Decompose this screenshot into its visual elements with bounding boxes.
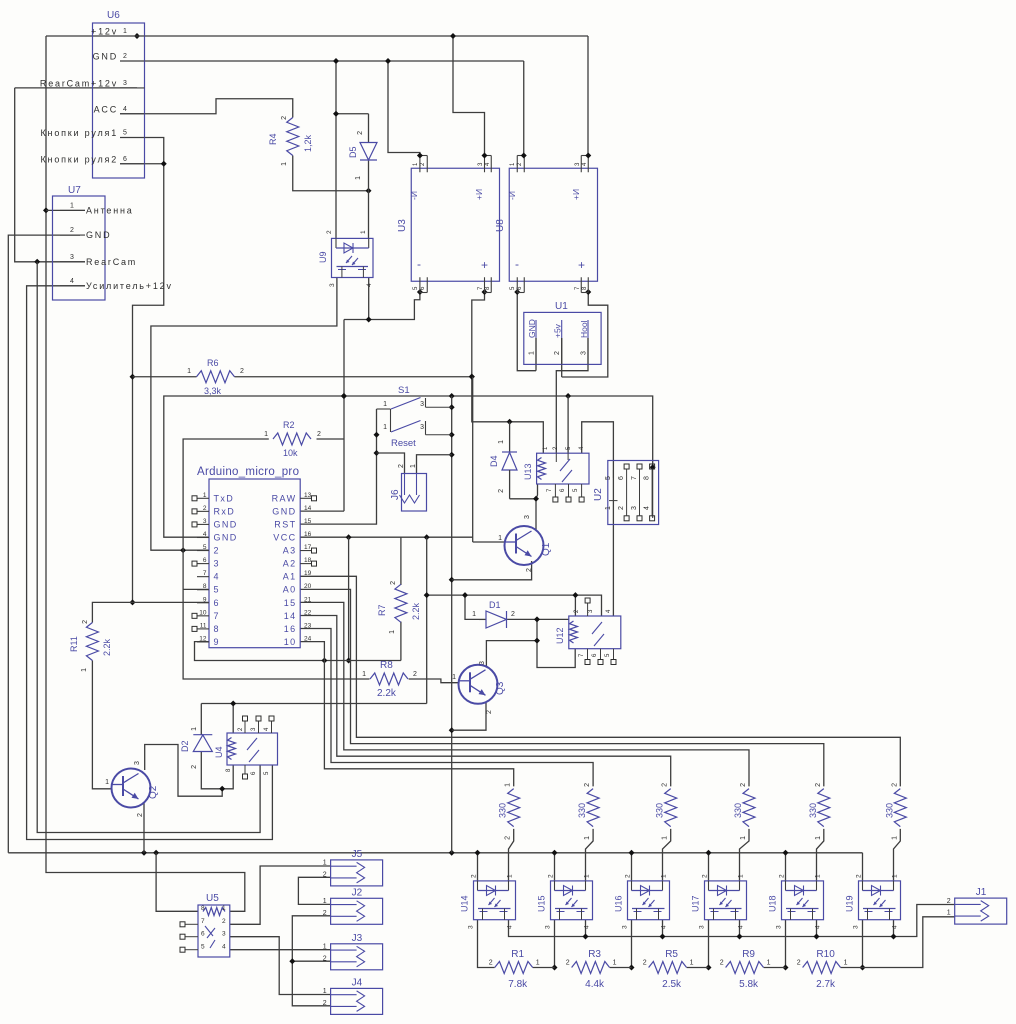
svg-text:R8: R8: [380, 660, 393, 671]
wire U5 pin2 to J5 pin1: [230, 866, 331, 924]
svg-text:-И: -И: [507, 191, 517, 200]
wire R8 pin2 to Q3 base: [409, 679, 460, 683]
wire ACC U6 pin4 to R4: [120, 99, 293, 118]
svg-text:7: 7: [201, 918, 205, 925]
svg-text:9: 9: [203, 596, 207, 603]
svg-text:3: 3: [214, 559, 220, 569]
wire R-row pin3 chain: [478, 920, 866, 971]
optocoupler U19: [845, 874, 901, 929]
svg-text:330: 330: [655, 803, 665, 818]
connector J5: [323, 849, 383, 886]
svg-text:Кнопки руля2: Кнопки руля2: [41, 154, 119, 164]
wire RearCam+12v U6 pin3 to U7 pin3: [15, 88, 137, 265]
wire J6 pin2 branch: [377, 453, 405, 474]
wire U7 pin3 tap bus3 down to U4: [37, 262, 260, 833]
svg-text:19: 19: [304, 570, 312, 577]
wire Arduino pin20 A0 to 330 resistor column: [300, 589, 824, 786]
svg-text:8: 8: [214, 624, 220, 634]
svg-text:1: 1: [613, 960, 617, 967]
svg-text:1: 1: [738, 874, 745, 878]
svg-text:8: 8: [644, 476, 651, 480]
svg-text:2: 2: [413, 671, 417, 678]
wire S1 left bracket down to RST pin15: [300, 409, 379, 524]
svg-text:Q3: Q3: [495, 681, 506, 695]
svg-text:1: 1: [584, 836, 591, 840]
svg-text:330: 330: [577, 803, 587, 818]
svg-text:12: 12: [199, 635, 207, 642]
wire Q3 emitter to bus: [452, 703, 486, 731]
svg-text:2: 2: [526, 568, 533, 572]
svg-text:3: 3: [479, 661, 486, 665]
svg-text:D1: D1: [489, 600, 501, 610]
svg-text:2: 2: [548, 874, 555, 878]
svg-text:4: 4: [738, 925, 745, 929]
resistor R10 2.7k: [797, 949, 848, 990]
wire J6 pin1 branch: [417, 455, 452, 474]
wire rail396 tap to U13 pin5: [567, 396, 569, 453]
wire D2 anode to y703 line: [201, 701, 426, 735]
svg-text:15: 15: [284, 598, 297, 608]
svg-text:3: 3: [203, 518, 207, 525]
optocoupler U16: [614, 874, 670, 929]
diode D2: [180, 727, 212, 769]
svg-text:+: +: [481, 258, 488, 272]
svg-text:3: 3: [468, 925, 475, 929]
svg-text:6: 6: [123, 156, 127, 163]
wire D2 U4 Q2 collector net: [145, 745, 234, 797]
svg-text:1: 1: [536, 960, 540, 967]
connector J2: [323, 887, 383, 924]
optocoupler U17: [691, 874, 747, 929]
svg-text:1: 1: [891, 836, 898, 840]
svg-text:R2: R2: [283, 420, 295, 430]
svg-text:U5: U5: [206, 893, 219, 904]
relay U13: [523, 446, 589, 502]
wire opto U15 pin2 to rail: [552, 850, 558, 881]
connector J1: [947, 887, 1007, 924]
resistor R9 5.8k: [720, 949, 771, 990]
svg-text:A2: A2: [283, 559, 297, 569]
svg-text:2: 2: [740, 783, 747, 787]
svg-text:330: 330: [498, 803, 508, 818]
svg-text:3: 3: [581, 351, 588, 355]
optocoupler U15: [537, 874, 593, 929]
svg-text:2: 2: [222, 918, 226, 925]
svg-text:2: 2: [326, 230, 333, 234]
wire 330 column 2 to opto U15 pin1: [586, 829, 594, 881]
svg-text:4: 4: [214, 572, 220, 582]
svg-text:U14: U14: [460, 895, 470, 912]
svg-text:3,3k: 3,3k: [204, 386, 222, 396]
svg-text:GND: GND: [214, 519, 238, 529]
svg-text:1: 1: [191, 727, 198, 731]
svg-text:2: 2: [214, 546, 220, 556]
resistor R4 1.2k: [268, 116, 313, 166]
svg-text:R5: R5: [665, 949, 678, 960]
svg-text:R9: R9: [742, 949, 755, 960]
svg-text:+12v: +12v: [91, 27, 118, 37]
connector J3: [323, 933, 383, 970]
svg-text:330: 330: [884, 803, 894, 818]
svg-text:R6: R6: [207, 358, 219, 368]
svg-text:U18: U18: [768, 895, 778, 912]
svg-text:R1: R1: [511, 949, 524, 960]
wire VCC pin16 line: [300, 377, 504, 542]
svg-text:2.2k: 2.2k: [377, 688, 397, 699]
wire U5 pin4 to J3 pin1: [230, 949, 331, 951]
wire 330 column 1 to opto U14 pin1: [509, 829, 514, 881]
svg-text:6: 6: [214, 598, 220, 608]
wire D1 cathode to U12 coil bottom and Q3 collector: [486, 616, 575, 667]
svg-text:U3: U3: [397, 219, 408, 232]
svg-text:10: 10: [199, 609, 207, 616]
svg-text:3: 3: [776, 925, 783, 929]
svg-text:RxD: RxD: [214, 506, 236, 516]
svg-text:1: 1: [264, 431, 268, 438]
svg-text:2: 2: [947, 898, 951, 905]
svg-text:1: 1: [584, 874, 591, 878]
svg-text:1: 1: [690, 960, 694, 967]
resistor R8 2.2k: [362, 660, 417, 699]
svg-text:5: 5: [203, 544, 207, 551]
wire opto U19 pin2 stub: [862, 853, 864, 881]
svg-text:U8: U8: [495, 219, 506, 232]
svg-text:R4: R4: [268, 133, 278, 145]
svg-text:1: 1: [661, 874, 668, 878]
svg-text:2: 2: [323, 910, 327, 917]
svg-text:GND: GND: [272, 506, 296, 516]
svg-text:2: 2: [856, 874, 863, 878]
wire +12v net from U6 pin1: [43, 33, 588, 911]
svg-text:4: 4: [222, 944, 226, 951]
svg-text:1: 1: [123, 28, 127, 35]
svg-text:RearCam+12v: RearCam+12v: [40, 78, 118, 88]
svg-text:6: 6: [203, 557, 207, 564]
svg-text:2: 2: [191, 765, 198, 769]
svg-text:2: 2: [891, 783, 898, 787]
svg-text:3: 3: [420, 424, 424, 431]
svg-text:4: 4: [892, 925, 899, 929]
svg-text:5: 5: [605, 476, 612, 480]
svg-text:1: 1: [815, 836, 822, 840]
wire bottom long rail y=852.8: [8, 850, 862, 856]
svg-text:+: +: [578, 258, 585, 272]
resistor 330 column 3: [655, 783, 677, 840]
svg-text:1: 1: [947, 910, 951, 917]
svg-text:8: 8: [203, 583, 207, 590]
wire R2 pin1 / pin8 / R8 vertical bus x=183: [183, 439, 369, 679]
svg-text:Кнопки руля1: Кнопки руля1: [41, 128, 119, 138]
svg-text:1: 1: [105, 779, 109, 786]
svg-text:R10: R10: [816, 949, 835, 960]
relay U12: [555, 598, 621, 665]
wire R4 bottom to D5 cathode junction: [293, 156, 372, 194]
svg-text:4.4k: 4.4k: [585, 979, 605, 990]
wire U13 pin4 to U12 pin4: [582, 422, 614, 616]
svg-text:J4: J4: [352, 977, 363, 988]
svg-text:D5: D5: [348, 146, 358, 158]
svg-text:3: 3: [222, 931, 226, 938]
wire U7 pin4 to bus2 down to U4: [27, 286, 273, 840]
svg-text:5: 5: [123, 130, 127, 137]
svg-text:4: 4: [123, 106, 127, 113]
resistor R6 3.3k: [187, 358, 244, 396]
svg-text:2: 2: [498, 489, 505, 493]
wire Q2 emitter down to rail: [143, 803, 145, 853]
svg-text:3: 3: [123, 80, 127, 87]
svg-text:1: 1: [323, 944, 327, 951]
svg-text:GND: GND: [214, 532, 238, 542]
svg-text:2.2k: 2.2k: [102, 638, 112, 656]
wire Arduino pin21 15 to 330 resistor column: [300, 602, 749, 786]
svg-text:4: 4: [644, 506, 651, 510]
svg-text:J1: J1: [976, 887, 987, 898]
svg-text:+И: +И: [474, 189, 484, 200]
svg-text:1: 1: [187, 368, 191, 375]
svg-text:+И: +И: [571, 189, 581, 200]
svg-text:2: 2: [815, 783, 822, 787]
svg-text:1: 1: [740, 836, 747, 840]
relay U5: [180, 893, 230, 957]
svg-text:2.5k: 2.5k: [662, 979, 682, 990]
svg-text:4: 4: [661, 925, 668, 929]
svg-text:1: 1: [662, 836, 669, 840]
svg-text:2: 2: [357, 131, 364, 135]
svg-text:GND: GND: [527, 319, 537, 338]
svg-text:Q1: Q1: [541, 542, 552, 556]
resistor 330 column 6: [884, 783, 906, 840]
svg-text:21: 21: [304, 596, 312, 603]
svg-text:2: 2: [471, 874, 478, 878]
connector U6: [40, 10, 145, 178]
svg-text:4: 4: [507, 925, 514, 929]
svg-text:J5: J5: [352, 849, 363, 860]
svg-text:U9: U9: [318, 251, 328, 263]
diode D1: [472, 600, 515, 628]
svg-text:20: 20: [304, 583, 312, 590]
resistor R11 2.2k: [69, 620, 112, 672]
wire rail 396 VCC/GND pin4 line: [164, 393, 656, 537]
svg-text:7: 7: [631, 476, 638, 480]
svg-text:Arduino_micro_pro: Arduino_micro_pro: [197, 466, 299, 478]
svg-text:1: 1: [383, 401, 387, 408]
svg-text:9: 9: [214, 637, 220, 647]
svg-text:D4: D4: [489, 455, 499, 467]
svg-text:3: 3: [70, 254, 74, 261]
svg-text:2.7k: 2.7k: [816, 979, 836, 990]
svg-text:2: 2: [489, 960, 493, 967]
svg-text:1: 1: [472, 611, 476, 618]
svg-text:RST: RST: [274, 519, 296, 529]
svg-text:RearCam: RearCam: [86, 257, 137, 267]
svg-text:R3: R3: [588, 949, 601, 960]
svg-text:5.8k: 5.8k: [739, 979, 759, 990]
svg-text:J6: J6: [390, 489, 401, 500]
svg-text:5: 5: [201, 944, 205, 951]
svg-text:3: 3: [420, 401, 424, 408]
svg-text:A0: A0: [283, 585, 297, 595]
svg-text:Усилитель+12v: Усилитель+12v: [86, 281, 173, 291]
svg-text:1: 1: [222, 905, 226, 912]
wire opto U14 pin2 to rail: [475, 850, 481, 881]
svg-text:7: 7: [203, 570, 207, 577]
wire R7 top to VCC line: [400, 537, 402, 585]
connector U7: [53, 185, 173, 300]
wire U1 pin3 Hool to U13 pin2: [556, 338, 588, 453]
wire 330 column 6 to opto U19 pin1: [894, 829, 901, 881]
svg-text:1: 1: [362, 671, 366, 678]
svg-text:1: 1: [452, 674, 456, 681]
svg-text:1: 1: [323, 988, 327, 995]
wire D5 to U9 pin1: [368, 160, 370, 238]
wire U9 pin4 net down to rail396 R2.2 GND14: [300, 278, 420, 512]
svg-text:4: 4: [70, 278, 74, 285]
svg-text:23: 23: [304, 622, 312, 629]
svg-text:2: 2: [486, 710, 493, 714]
svg-text:18: 18: [304, 557, 312, 564]
wire rail tap to U5 pin8: [156, 853, 198, 912]
svg-text:6: 6: [618, 476, 625, 480]
svg-text:3: 3: [853, 925, 860, 929]
wire U3 minus out to U9 staircase junction: [417, 289, 423, 295]
svg-text:1: 1: [815, 874, 822, 878]
svg-text:Hool: Hool: [579, 320, 589, 338]
resistor R1 7.8k: [489, 949, 540, 990]
svg-text:330: 330: [808, 803, 818, 818]
svg-text:2: 2: [203, 505, 207, 512]
svg-text:U6: U6: [107, 10, 120, 21]
svg-text:8: 8: [201, 905, 205, 912]
svg-text:1: 1: [389, 630, 396, 634]
wire 330 column 3 to opto U16 pin1: [663, 829, 671, 881]
diode D4: [489, 422, 517, 499]
svg-text:11: 11: [200, 622, 207, 629]
connector J6: [390, 464, 427, 511]
svg-text:1: 1: [360, 230, 367, 234]
wire Arduino pin24 10 to 330 resistor column: [300, 642, 514, 787]
wire rail 376 (R6 line): [133, 376, 472, 378]
svg-text:2: 2: [323, 871, 327, 878]
resistor 330 column 4: [733, 783, 755, 840]
connector U1: [524, 301, 601, 364]
wire Arduino pin22 14 to 330 resistor column: [300, 616, 671, 787]
svg-text:2: 2: [123, 53, 127, 60]
svg-text:13: 13: [304, 492, 312, 499]
svg-text:2: 2: [70, 227, 74, 234]
svg-text:U15: U15: [537, 895, 547, 912]
wire 330 column 5 to opto U18 pin1: [817, 829, 824, 881]
wire U7 pin2 GND to bus1 down to bottom rail: [8, 235, 80, 853]
svg-text:14: 14: [284, 611, 297, 621]
wire S1 and reset bus x=451.7: [449, 396, 455, 853]
transistor Q2: [105, 761, 159, 817]
svg-text:1: 1: [70, 202, 74, 209]
svg-text:3: 3: [631, 506, 638, 510]
svg-text:1: 1: [323, 860, 327, 867]
svg-text:2: 2: [323, 1000, 327, 1007]
svg-text:1: 1: [410, 464, 417, 468]
svg-text:+5v: +5v: [553, 323, 563, 338]
resistor 330 column 2: [577, 783, 599, 840]
svg-text:1: 1: [605, 506, 612, 510]
relay U4: [214, 716, 278, 779]
svg-text:1: 1: [498, 440, 505, 444]
wire R10 pin1 to J1 pin1: [841, 917, 955, 968]
svg-text:16: 16: [284, 624, 297, 634]
wire opto U17 pin2 to rail: [706, 850, 712, 881]
wire opto U16 pin2 to rail: [629, 850, 635, 881]
switch S1 Reset: [377, 385, 452, 449]
wire VCC branch down to D1 U12 coil: [424, 537, 602, 703]
svg-text:2: 2: [323, 955, 327, 962]
svg-text:3: 3: [524, 515, 531, 519]
wire Arduino pin23 16 to 330 resistor column: [300, 629, 593, 787]
svg-text:2: 2: [643, 960, 647, 967]
svg-text:2: 2: [390, 581, 397, 585]
svg-text:7.8k: 7.8k: [508, 979, 528, 990]
svg-text:2: 2: [398, 464, 405, 468]
wire GND net from U6 pin2: [120, 58, 524, 238]
svg-text:2: 2: [779, 874, 786, 878]
svg-text:U4: U4: [214, 746, 224, 758]
svg-text:A1: A1: [283, 572, 297, 582]
wire R11 top to Arduino pin9 line: [92, 602, 209, 622]
svg-text:22: 22: [304, 609, 312, 616]
svg-text:3: 3: [134, 761, 141, 765]
relay module U3: [397, 153, 500, 293]
svg-text:3: 3: [545, 925, 552, 929]
svg-text:R7: R7: [377, 604, 387, 616]
svg-text:U1: U1: [555, 301, 568, 312]
svg-text:15: 15: [304, 518, 312, 525]
svg-text:GND: GND: [86, 230, 111, 240]
resistor 330 column 1: [498, 783, 520, 840]
svg-text:1: 1: [767, 960, 771, 967]
wire pin12 to R7 bottom line y660: [195, 622, 401, 664]
svg-text:Антенна: Антенна: [86, 205, 134, 215]
svg-text:D2: D2: [180, 740, 190, 752]
svg-text:J2: J2: [352, 887, 363, 898]
wire opto U18 pin2 to rail: [783, 850, 789, 881]
svg-text:2: 2: [662, 783, 669, 787]
svg-text:1: 1: [203, 492, 207, 499]
svg-text:1: 1: [281, 162, 288, 166]
svg-text:1: 1: [529, 351, 536, 355]
svg-text:R11: R11: [69, 636, 79, 652]
svg-text:2: 2: [505, 836, 512, 840]
wire J5 pin2 stub: [298, 877, 330, 904]
wire x348 vertical to pin12 line: [346, 537, 352, 663]
wire U5 pin3 to J4 pin1: [230, 937, 331, 995]
svg-text:2: 2: [317, 431, 321, 438]
svg-text:2: 2: [566, 960, 570, 967]
svg-text:-: -: [417, 257, 421, 271]
svg-text:4: 4: [815, 925, 822, 929]
wire rail376 corner down to U13 coil and D4: [472, 377, 544, 453]
svg-text:VCC: VCC: [273, 532, 296, 542]
svg-text:3: 3: [329, 283, 336, 287]
connector U2: [593, 461, 659, 525]
svg-text:Q2: Q2: [148, 785, 159, 799]
svg-text:2: 2: [240, 368, 244, 375]
svg-text:14: 14: [304, 505, 312, 512]
svg-text:U17: U17: [691, 895, 701, 912]
svg-text:1: 1: [323, 898, 327, 905]
wire U8 minus to U1 pin1 GND: [514, 289, 536, 371]
wire Q1 collector to U13 relay coil bottom with D4: [510, 484, 539, 531]
wire 330 column 4 to opto U17 pin1: [740, 829, 750, 881]
svg-text:1: 1: [505, 783, 512, 787]
